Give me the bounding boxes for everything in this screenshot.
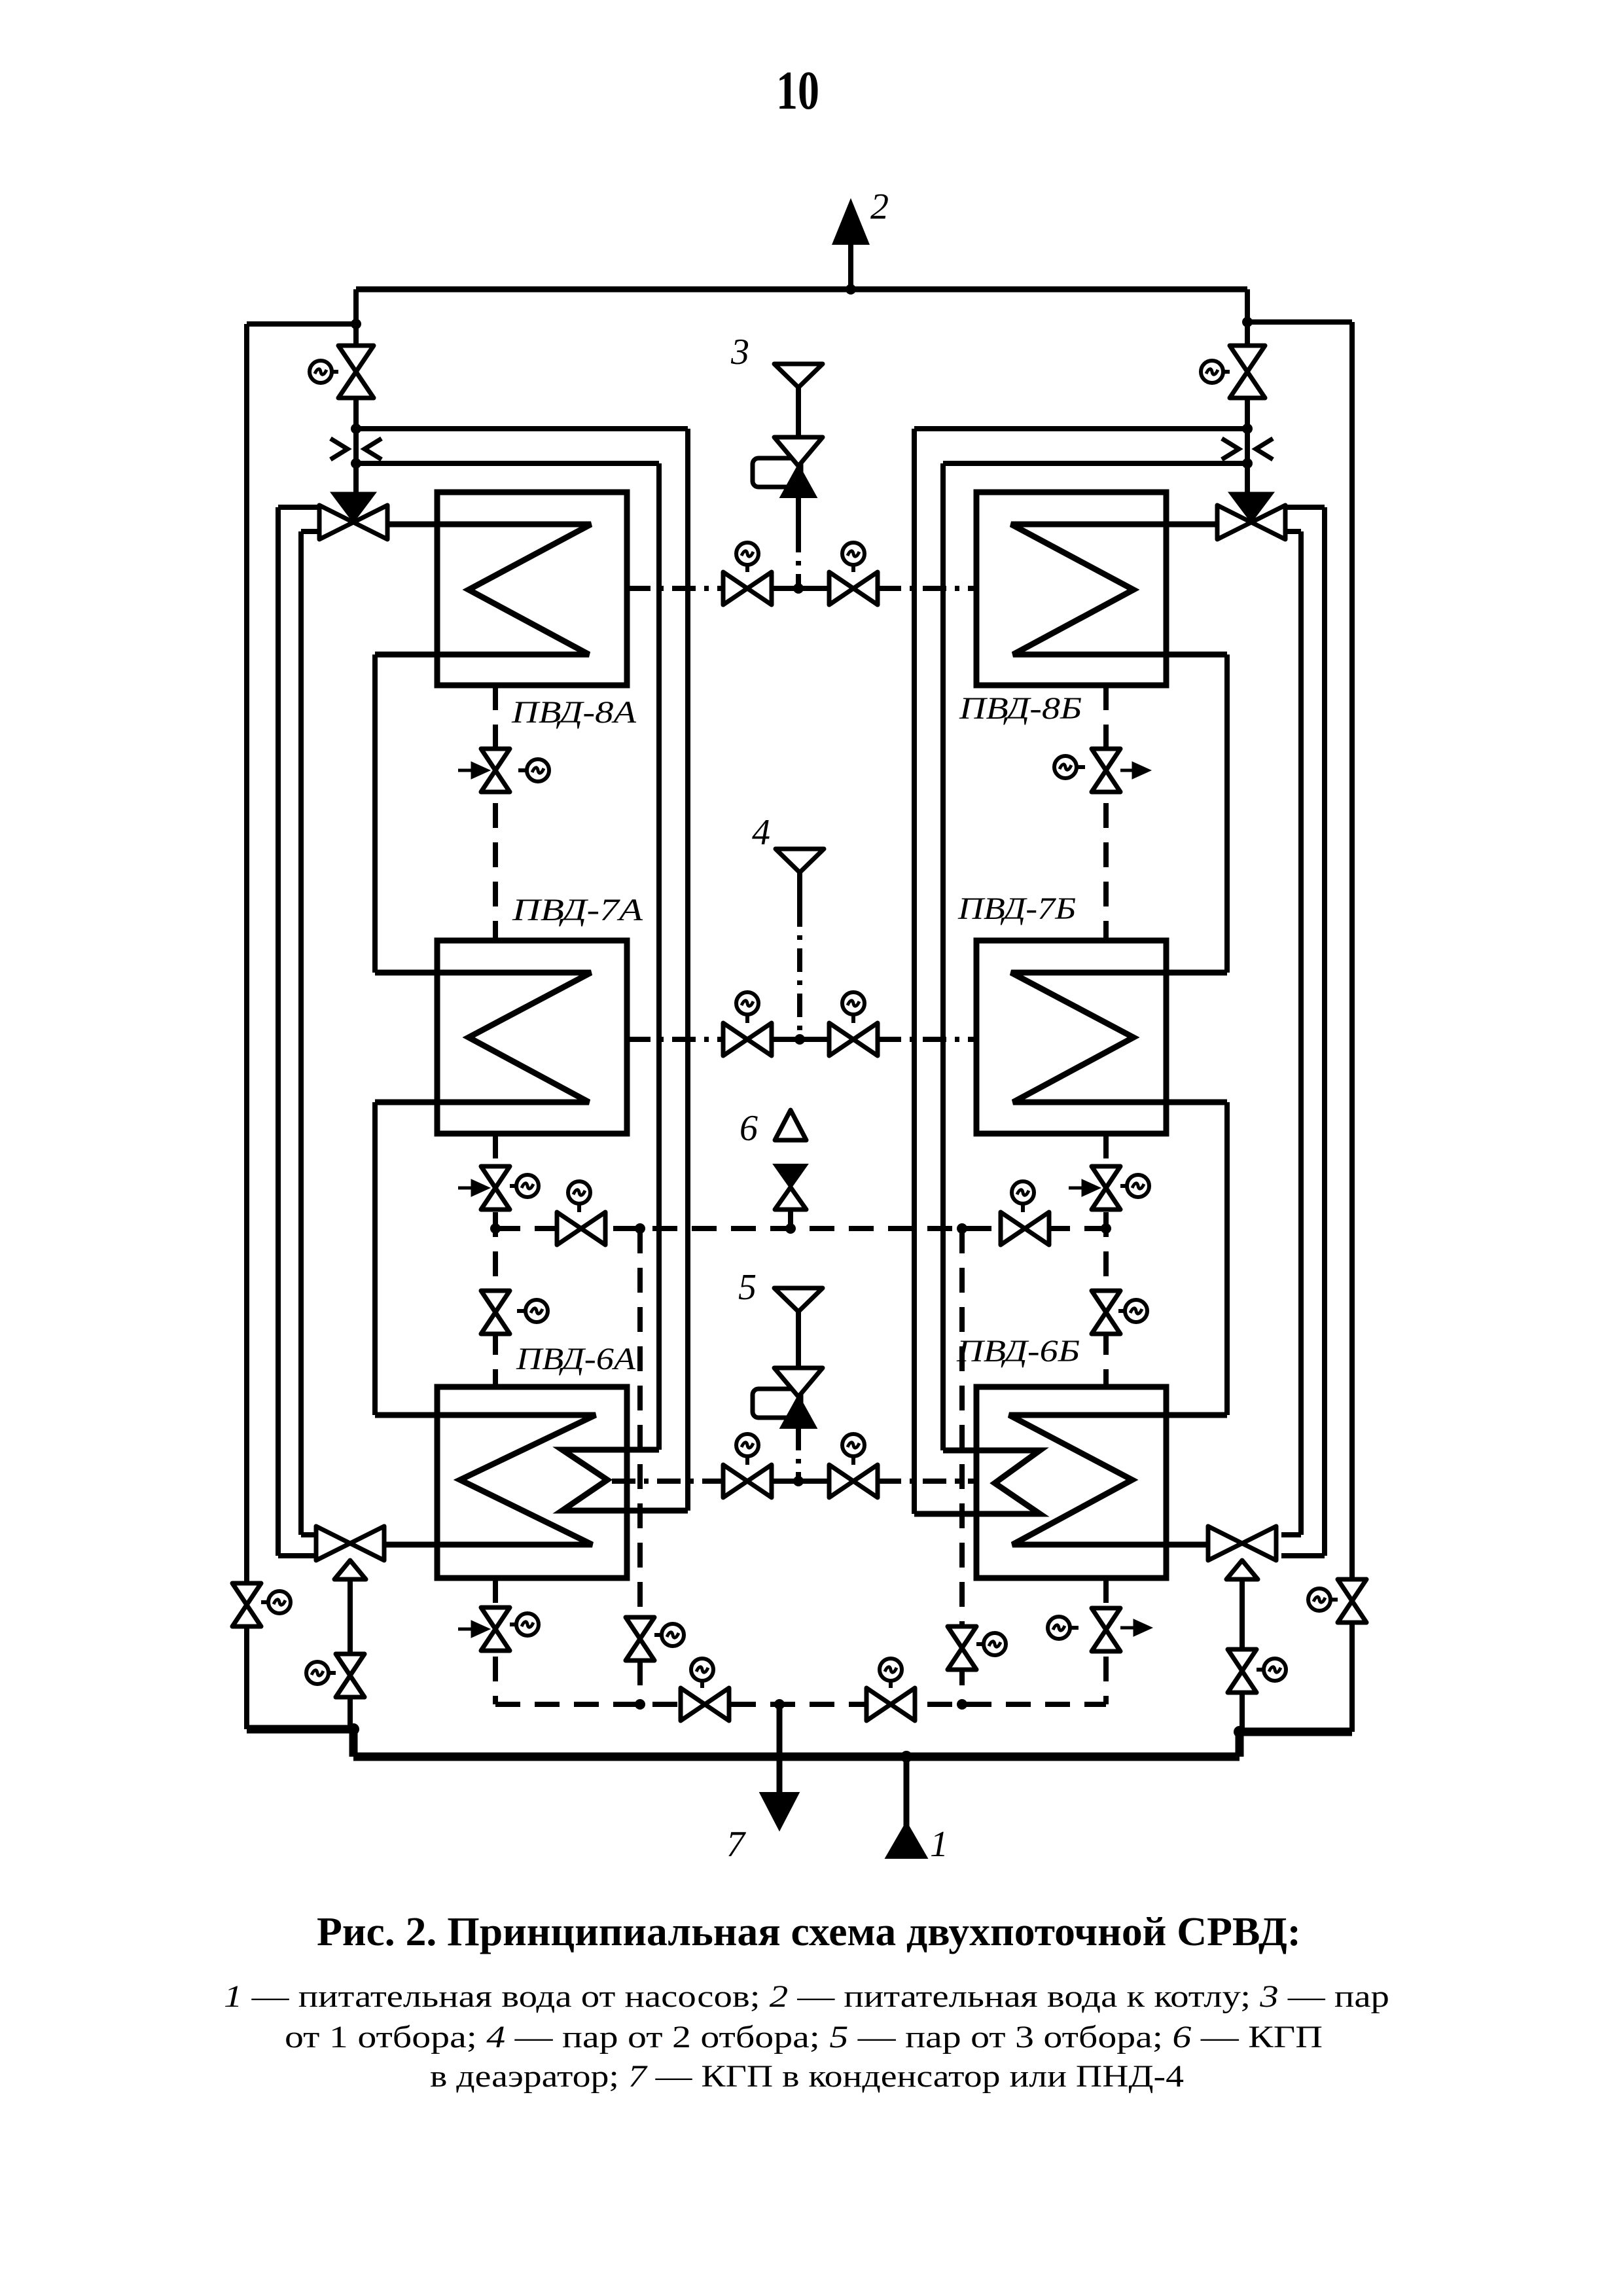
wire mid segment of PVD-6 extraction line	[772, 1479, 829, 1484]
svg-text:ПВД-8Б: ПВД-8Б	[959, 691, 1082, 726]
valve PVD-7 extraction right	[829, 1023, 878, 1056]
arrow 2 to boiler	[834, 202, 868, 243]
flow restrictor right	[1222, 439, 1273, 459]
PIPES-SOLID	[247, 242, 1352, 1833]
wire left bypass lower y=708	[356, 461, 659, 466]
3-way valve right top	[1217, 505, 1285, 539]
gauge of drain header left valve	[568, 1181, 590, 1212]
wire feed link PVD-7A to PVD-6A x=573	[372, 1102, 378, 1415]
drain valve below PVD-6B	[1092, 1608, 1120, 1651]
valve on drain header left	[557, 1212, 605, 1245]
svg-text:7: 7	[726, 1824, 746, 1865]
gauge PVD-8 extraction left	[736, 543, 758, 572]
drain arrow below PVD-7A	[458, 1181, 487, 1194]
gauge of drain below PVD-7A	[510, 1175, 539, 1197]
valve PVD-8 extraction left	[723, 572, 772, 605]
wire drain cross header to deaerator y=1877	[495, 1226, 1106, 1231]
wire stem of funnel 5	[796, 1310, 801, 1346]
wire left inlet riser x=544	[353, 289, 359, 493]
valve on condensate header right	[866, 1688, 915, 1721]
wire drain riser left x=978	[637, 1229, 643, 1704]
svg-text:ПВД-6А: ПВД-6А	[516, 1342, 636, 1376]
wire top main header to boiler	[356, 287, 1247, 293]
gauge of left riser valve	[310, 361, 338, 383]
wire steam line 5 drop	[796, 1343, 801, 1481]
gauge of condensate header right valve	[880, 1659, 902, 1688]
wire PVD-7 extraction right segment	[878, 1037, 976, 1042]
coil of heater PVD-6B	[1009, 1415, 1227, 1545]
coil notch of heater PVD-6A	[562, 1450, 688, 1511]
shell of heater PVD-6A	[437, 1387, 627, 1578]
check valve 6	[775, 1165, 806, 1187]
actuator box of valve 5	[753, 1389, 801, 1418]
coil of heater PVD-8B	[1011, 524, 1227, 655]
gauge of outer-right valve	[1308, 1588, 1338, 1611]
3-way valve left bottom	[316, 1526, 384, 1560]
wire upper-right header branch	[1247, 319, 1352, 325]
wire mid segment of PVD-8 extraction line	[772, 586, 829, 591]
3-way valve right bottom	[1208, 1526, 1276, 1560]
3-way valve left top	[319, 505, 387, 539]
drain valve below PVD-8B	[1092, 749, 1120, 792]
valve on outer-right main	[1338, 1579, 1366, 1623]
PIPES-DASHDOT	[612, 529, 976, 1481]
gauge of drain below PVD-8A	[518, 759, 549, 781]
wire PVD-8 extraction right segment	[878, 586, 976, 591]
shell of heater PVD-8A	[437, 492, 627, 685]
drain valve below PVD-7B	[1092, 1166, 1120, 1210]
gauge PVD-8 extraction right	[842, 543, 865, 572]
drain arrow below PVD-8A	[458, 764, 487, 777]
wire stem of funnel 4	[797, 871, 802, 906]
wire right bypass vertical x=2024	[1281, 507, 1325, 1556]
svg-text:10: 10	[776, 60, 819, 121]
gauge below right 3-way	[1257, 1659, 1286, 1681]
wire drain PVD-8A to PVD-7A	[493, 685, 498, 941]
drain valve above PVD-6B	[1092, 1291, 1120, 1334]
svg-text:Рис. 2. Принципиальная схема д: Рис. 2. Принципиальная схема двухпоточно…	[317, 1910, 1301, 1954]
wire steam line 4 drop	[797, 903, 802, 1039]
gauge of drain header right valve	[1012, 1181, 1034, 1212]
gauge of drain below PVD-6B	[1048, 1617, 1079, 1639]
drain valve below PVD-6A	[481, 1607, 510, 1651]
svg-text:ПВД-7А: ПВД-7А	[512, 893, 643, 927]
gauge PVD-6 extraction right	[842, 1434, 865, 1465]
wire right downcomer x=1441	[940, 463, 946, 1450]
gauge of drain below PVD-8B	[1054, 756, 1085, 778]
gauge PVD-7 extraction left	[736, 992, 758, 1023]
wire PVD-6 extraction right segment	[878, 1479, 976, 1484]
wire feed link PVD-8A to PVD-7A x=573	[372, 655, 378, 973]
gauge below left 3-way	[306, 1662, 336, 1684]
actuator box of valve 3	[753, 458, 801, 487]
wire bottom feedwater main	[247, 1729, 1352, 1757]
shell of heater PVD-7A	[437, 941, 627, 1134]
wire left bypass vertical x=425	[278, 507, 321, 1556]
wire stem below valve 3	[796, 497, 801, 531]
PIPES-DASHED	[495, 685, 1106, 1704]
gauge of outer-left valve	[261, 1591, 291, 1613]
valve on condensate header left	[681, 1688, 729, 1721]
svg-text:6: 6	[740, 1108, 758, 1149]
svg-text:5: 5	[738, 1267, 757, 1308]
valve PVD-7 extraction left	[723, 1023, 772, 1056]
gauge PVD-6 extraction left	[736, 1434, 758, 1465]
drain arrow below PVD-6B	[1120, 1621, 1149, 1634]
gauge of drain above PVD-6A	[517, 1300, 548, 1322]
svg-text:от 1 отбора; 4 — пар от 2 отбо: от 1 отбора; 4 — пар от 2 отбора; 5 — па…	[285, 2020, 1323, 2054]
funnel of steam line 5	[774, 1288, 823, 1312]
shell of heater PVD-8B	[976, 492, 1166, 685]
coil notch of heater PVD-6B	[914, 1450, 1040, 1514]
shell of heater PVD-7B	[976, 941, 1166, 1134]
wire outer-left main x=377	[244, 324, 249, 1729]
drain valve below PVD-7A	[481, 1166, 510, 1210]
valve on drain riser left	[626, 1617, 654, 1660]
valve below left 3-way	[336, 1654, 365, 1697]
wire left bypass upper y=655	[356, 426, 688, 431]
svg-text:3: 3	[730, 332, 749, 372]
svg-text:1: 1	[930, 1824, 948, 1865]
arrow 7 to condenser	[761, 1793, 798, 1829]
svg-text:1 — питательная вода от насосо: 1 — питательная вода от насосов; 2 — пит…	[224, 1979, 1389, 2014]
valve on outer-left main	[232, 1583, 261, 1626]
wire drain PVD-7A to PVD-6A	[493, 1134, 498, 1387]
drain arrow below PVD-6A	[458, 1623, 487, 1636]
wire PVD-8 extraction left segment	[627, 586, 723, 591]
drain valve below PVD-8A	[481, 749, 510, 792]
valve on drain header right	[1001, 1212, 1049, 1245]
gauge of condensate header left valve	[691, 1659, 713, 1688]
wire stem of drain arrow 7	[777, 1704, 783, 1796]
wire upper-left header branch	[247, 321, 356, 327]
svg-text:в деаэратор; 7 — КГП в конденс: в деаэратор; 7 — КГП в конденсатор или П…	[430, 2059, 1184, 2094]
svg-text:ПВД-7Б: ПВД-7Б	[957, 891, 1076, 926]
wire right bypass lower y=708	[943, 461, 1247, 466]
drain arrow below PVD-7B	[1069, 1181, 1097, 1194]
wire right bypass vertical x=1988	[1281, 531, 1301, 1535]
funnel of steam line 4	[776, 849, 824, 872]
coil of heater PVD-8A	[375, 524, 591, 655]
valve PVD-6 extraction right	[829, 1465, 878, 1498]
funnel of steam line 3	[774, 364, 823, 387]
shell of heater PVD-6B	[976, 1387, 1166, 1578]
coil of heater PVD-7A	[375, 973, 591, 1102]
gauge PVD-7 extraction right	[842, 992, 865, 1023]
wire drain PVD-8B to PVD-7B	[1103, 685, 1109, 941]
wire feed link PVD-7B to PVD-6B x=1875	[1224, 1102, 1230, 1415]
svg-text:4: 4	[752, 812, 770, 853]
wire drain riser right x=1470	[959, 1229, 965, 1704]
wire left outlet column below 3-way	[348, 1577, 353, 1729]
wire outer-right main x=2066	[1349, 322, 1355, 1732]
drain valve above PVD-6A	[481, 1291, 510, 1334]
gauge of drain riser left valve	[654, 1624, 684, 1646]
wire left downcomer x=1007	[656, 463, 662, 1450]
wire condensate bottom header y=2604	[495, 1702, 1106, 1707]
drain arrow out of PVD-8B valve	[1120, 764, 1148, 777]
gauge of drain riser right valve	[976, 1633, 1006, 1655]
arrow into left 3-way valve	[332, 493, 375, 522]
vent triangle 6	[775, 1110, 806, 1140]
wire drain PVD-6B outlet	[1103, 1578, 1109, 1704]
wire stem of vent 6	[788, 1210, 793, 1229]
valve PVD-8 extraction right	[829, 572, 878, 605]
wire stem of funnel 3	[796, 386, 801, 437]
wire right outlet column below 3-way	[1240, 1577, 1245, 1732]
coil of heater PVD-7B	[1011, 973, 1227, 1102]
wire feed link PVD-8B to PVD-7B x=1875	[1224, 655, 1230, 973]
wire PVD-7 extraction left segment	[627, 1037, 723, 1042]
valve on left riser	[338, 346, 374, 398]
valve on drain riser right	[948, 1626, 976, 1670]
svg-text:ПВД-8А: ПВД-8А	[511, 695, 637, 730]
valve PVD-6 extraction left	[723, 1465, 772, 1498]
wire steam line 3 drop	[796, 529, 801, 588]
gauge of drain below PVD-7B	[1120, 1175, 1149, 1197]
wire left bypass vertical x=460	[301, 531, 321, 1535]
wire stem of outlet arrow 2	[848, 242, 853, 289]
arrow 1 from feed pumps	[887, 1823, 926, 1857]
valve below right 3-way	[1228, 1649, 1257, 1693]
svg-text:2: 2	[870, 187, 889, 227]
control valve of steam line 5	[774, 1368, 823, 1397]
wire right bypass upper y=655	[914, 426, 1247, 431]
flow restrictor left	[330, 439, 382, 459]
valve on right riser	[1230, 346, 1265, 398]
coil of heater PVD-6A	[375, 1415, 596, 1545]
wire PVD-6 extraction left segment	[612, 1479, 723, 1484]
wire mid segment of PVD-7 extraction line	[772, 1037, 829, 1042]
wire left downcomer x=1051	[685, 429, 690, 1511]
gauge of drain below PVD-6A	[510, 1613, 539, 1636]
svg-text:ПВД-6Б: ПВД-6Б	[956, 1334, 1080, 1369]
control valve of steam line 3	[774, 437, 823, 466]
arrow into right 3-way valve	[1230, 493, 1273, 522]
wire drain PVD-6A outlet	[493, 1578, 498, 1704]
wire stem of inlet arrow 1	[904, 1757, 910, 1833]
gauge of drain above PVD-6B	[1118, 1300, 1147, 1322]
wire right inlet riser x=1906	[1245, 289, 1250, 493]
gauge of right riser valve	[1201, 361, 1230, 383]
wire stem below valve 5	[796, 1427, 801, 1450]
wire drain PVD-7B to PVD-6B	[1103, 1134, 1109, 1387]
wire right downcomer x=1397	[912, 429, 917, 1514]
